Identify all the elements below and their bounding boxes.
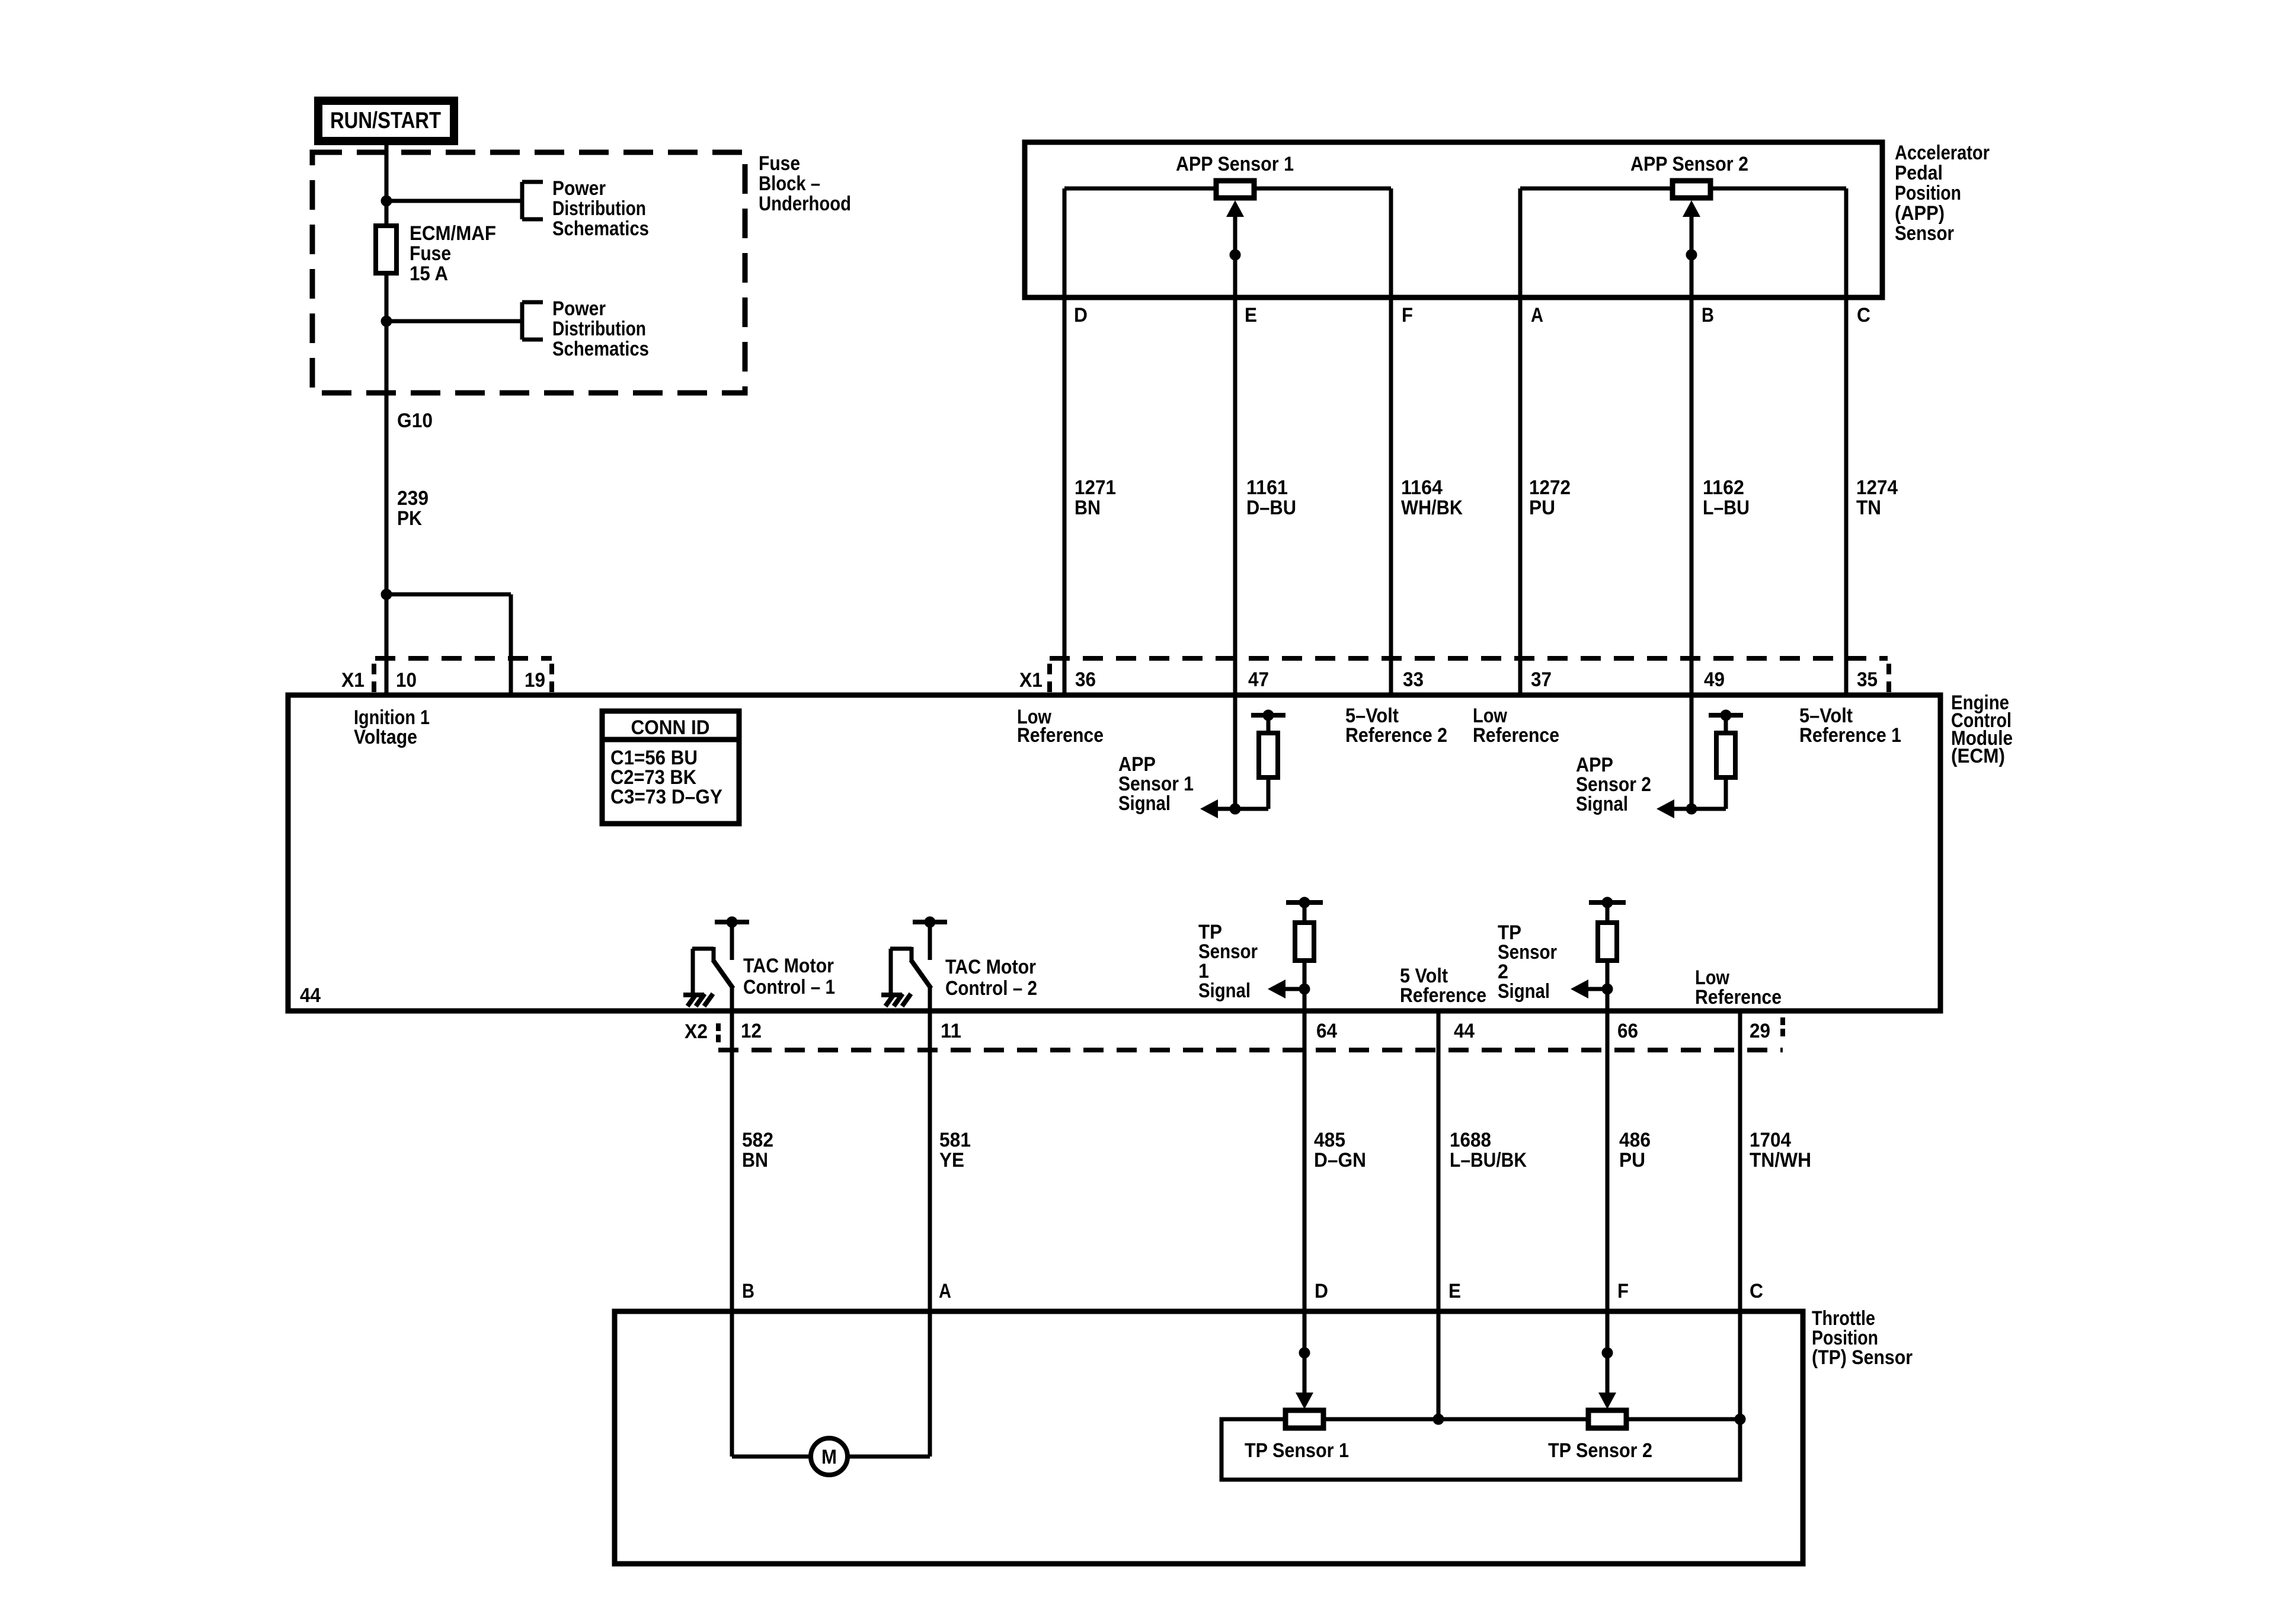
pin 37 xyxy=(1531,668,1552,691)
svg-text:Reference: Reference xyxy=(1017,724,1104,747)
svg-text:TP Sensor 2: TP Sensor 2 xyxy=(1548,1439,1652,1462)
svg-text:TN: TN xyxy=(1856,497,1881,519)
pin 19 xyxy=(525,669,545,692)
svg-text:Reference: Reference xyxy=(1695,986,1782,1009)
wire RUN/START to fuse xyxy=(385,141,389,226)
resistor TP sensor 2 signal xyxy=(1598,923,1617,961)
wire pin 66 (486 PU) xyxy=(1606,1011,1610,1394)
off-page connector power distribution 1 xyxy=(522,182,543,219)
wire C (1274 TN) xyxy=(1844,188,1849,695)
label X2 xyxy=(685,1020,708,1043)
wire branch 2 xyxy=(386,319,522,324)
svg-text:19: 19 xyxy=(525,669,545,692)
svg-text:Reference: Reference xyxy=(1473,724,1559,747)
svg-text:YE: YE xyxy=(939,1149,964,1172)
svg-text:L–BU/BK: L–BU/BK xyxy=(1450,1149,1527,1172)
label pin 44 (ECM bottom left) xyxy=(300,984,321,1007)
svg-text:APP Sensor 2: APP Sensor 2 xyxy=(1630,153,1748,175)
node C junction on track xyxy=(1735,1414,1745,1425)
svg-text:Distribution: Distribution xyxy=(552,318,646,340)
pin 12 xyxy=(741,1020,762,1042)
svg-text:Schematics: Schematics xyxy=(552,217,649,240)
arrow APP sensor 1 signal signal xyxy=(1200,799,1235,818)
svg-text:64: 64 xyxy=(1316,1020,1337,1042)
svg-text:Control – 2: Control – 2 xyxy=(945,977,1037,1000)
svg-text:X2: X2 xyxy=(685,1020,708,1043)
ground (TAC motor control 2) xyxy=(881,994,911,1006)
pin E (TP) xyxy=(1448,1280,1461,1302)
label 5 Volt Reference xyxy=(1400,965,1486,1007)
svg-text:Reference 2: Reference 2 xyxy=(1345,724,1447,747)
wire resistor TP sensor 2 signal down xyxy=(1606,961,1610,1011)
wire APP pot 2 track xyxy=(1520,187,1846,191)
label TP Sensor 2 xyxy=(1548,1439,1652,1462)
svg-text:Underhood: Underhood xyxy=(759,193,851,215)
svg-text:D–GN: D–GN xyxy=(1314,1149,1366,1172)
pin 36 xyxy=(1075,668,1096,691)
node APP sensor 2 signal signal junction xyxy=(1686,804,1697,814)
svg-text:10: 10 xyxy=(396,669,417,692)
connector X1 right (pins 36,47,33,37,49,35) xyxy=(1050,658,1889,693)
svg-text:1271: 1271 xyxy=(1075,476,1116,499)
pin B (TP) xyxy=(742,1280,754,1302)
svg-text:581: 581 xyxy=(939,1129,971,1151)
label wire 1704 TN/WH xyxy=(1750,1129,1811,1172)
label TAC Motor Control - 2 xyxy=(945,956,1037,1000)
svg-text:TN/WH: TN/WH xyxy=(1750,1149,1811,1172)
label wire 581 YE xyxy=(939,1129,971,1172)
label Power Distribution Schematics 1 xyxy=(552,177,649,240)
svg-text:M: M xyxy=(821,1446,837,1468)
svg-text:Voltage: Voltage xyxy=(354,726,417,748)
svg-text:(ECM): (ECM) xyxy=(1951,745,2005,767)
pin 11 xyxy=(941,1020,961,1042)
svg-text:Block –: Block – xyxy=(759,172,820,195)
arrow TP sensor 2 signal signal xyxy=(1571,980,1607,998)
svg-text:B: B xyxy=(1702,304,1714,327)
wire resistor APP sensor 2 signal to signal node xyxy=(1691,695,1726,809)
wire B (1162 L-BU) xyxy=(1690,213,1694,695)
svg-text:Schematics: Schematics xyxy=(552,338,649,360)
svg-text:BN: BN xyxy=(742,1149,768,1172)
wiper arrow APP sensor 1 xyxy=(1226,200,1244,260)
svg-text:1704: 1704 xyxy=(1750,1129,1791,1151)
node G10 xyxy=(397,409,433,432)
svg-text:D: D xyxy=(1074,304,1088,327)
label wire 1161 D-BU xyxy=(1246,476,1296,519)
node E junction on track xyxy=(1433,1414,1444,1425)
wire pin 44 (1688 L-BU/BK) xyxy=(1437,1011,1441,1419)
svg-text:Accelerator: Accelerator xyxy=(1895,142,1990,164)
svg-text:37: 37 xyxy=(1531,668,1552,691)
5V rail T-bar (TP sensor 1 signal) xyxy=(1286,897,1323,924)
label 5-Volt Reference 2 xyxy=(1345,705,1447,747)
pin 29 xyxy=(1750,1020,1770,1042)
pin 49 xyxy=(1704,668,1725,691)
label Power Distribution Schematics 2 xyxy=(552,297,649,360)
svg-text:F: F xyxy=(1617,1280,1629,1302)
resistor APP sensor 2 signal xyxy=(1716,733,1735,777)
pin D xyxy=(1074,304,1088,327)
svg-text:11: 11 xyxy=(941,1020,961,1042)
label Low Reference (pin 29) xyxy=(1695,966,1782,1009)
wire motor loop A side xyxy=(848,1311,930,1457)
wire branch 1 xyxy=(386,199,522,203)
svg-text:49: 49 xyxy=(1704,668,1725,691)
svg-text:Power: Power xyxy=(552,297,606,320)
label APP Sensor 2 xyxy=(1630,153,1748,175)
svg-text:TP Sensor 1: TP Sensor 1 xyxy=(1245,1439,1349,1462)
svg-text:Reference 1: Reference 1 xyxy=(1799,724,1901,747)
svg-text:Signal: Signal xyxy=(1498,980,1550,1003)
label wire 1274 TN xyxy=(1856,476,1898,519)
svg-text:1274: 1274 xyxy=(1856,476,1898,499)
label TAC Motor Control - 1 xyxy=(743,955,835,998)
svg-text:C3=73 D–GY: C3=73 D–GY xyxy=(610,786,722,808)
wire pin 11 (581 YE) xyxy=(928,988,932,1311)
TP sensors inner box xyxy=(1221,1419,1740,1480)
svg-text:Distribution: Distribution xyxy=(552,197,646,220)
svg-text:36: 36 xyxy=(1075,668,1096,691)
label APP Sensor 1 Signal xyxy=(1118,753,1194,815)
svg-text:WH/BK: WH/BK xyxy=(1401,497,1463,519)
off-page connector power distribution 2 xyxy=(522,302,543,340)
svg-text:Reference: Reference xyxy=(1400,984,1486,1007)
label TP Sensor 1 xyxy=(1245,1439,1349,1462)
label Fuse Block - Underhood xyxy=(759,152,851,215)
svg-text:TAC Motor: TAC Motor xyxy=(743,955,834,977)
svg-text:1688: 1688 xyxy=(1450,1129,1491,1151)
svg-text:Pedal: Pedal xyxy=(1895,162,1943,184)
label wire 486 PU xyxy=(1619,1129,1651,1172)
svg-text:Control – 1: Control – 1 xyxy=(743,976,835,998)
svg-text:Signal: Signal xyxy=(1198,980,1251,1002)
label Low Reference (pin 37) xyxy=(1473,705,1559,747)
pin A (TP) xyxy=(939,1280,951,1302)
svg-text:239: 239 xyxy=(397,487,428,510)
svg-text:47: 47 xyxy=(1248,668,1269,691)
label wire 582 BN xyxy=(742,1129,773,1172)
label APP Sensor 1 xyxy=(1176,153,1294,175)
label 5-Volt Reference 1 xyxy=(1799,705,1901,747)
svg-text:12: 12 xyxy=(741,1020,762,1042)
svg-text:APP Sensor 1: APP Sensor 1 xyxy=(1176,153,1294,175)
label X1 left xyxy=(341,669,364,692)
svg-text:BN: BN xyxy=(1075,497,1101,519)
potentiometer TP sensor 2 xyxy=(1588,1410,1626,1428)
svg-text:X1: X1 xyxy=(1019,669,1043,692)
label wire 239 PK xyxy=(397,487,428,530)
svg-text:1162: 1162 xyxy=(1703,476,1744,499)
svg-text:Position: Position xyxy=(1895,182,1961,204)
fuse ECM/MAF 15 A xyxy=(376,226,396,273)
svg-text:F: F xyxy=(1402,304,1413,327)
svg-text:RUN/START: RUN/START xyxy=(330,108,441,133)
connector X2 (pins 12,11,64,44,66,29) xyxy=(718,1017,1783,1050)
wire APP pot 1 track xyxy=(1064,187,1391,191)
svg-text:TAC Motor: TAC Motor xyxy=(945,956,1036,978)
label wire 1688 L-BU/BK xyxy=(1450,1129,1527,1172)
node branch to power distribution 2 xyxy=(381,316,392,327)
label ECM/MAF Fuse 15 A xyxy=(410,222,496,285)
label APP Sensor 2 Signal xyxy=(1576,754,1651,815)
svg-text:L–BU: L–BU xyxy=(1703,497,1750,519)
wire split to pin 10 xyxy=(385,594,389,695)
node TP sensor 2 signal signal junction xyxy=(1602,984,1613,994)
label Accelerator Pedal Position (APP) Sensor xyxy=(1895,142,1990,245)
wire A (1272 PU) xyxy=(1518,188,1523,695)
svg-text:CONN ID: CONN ID xyxy=(631,716,710,739)
switch RUN/START voltage source xyxy=(318,101,454,141)
label wire 485 D-GN xyxy=(1314,1129,1366,1172)
svg-text:35: 35 xyxy=(1857,668,1878,691)
svg-text:Signal: Signal xyxy=(1118,792,1171,815)
label wire 1272 PU xyxy=(1529,476,1571,519)
pin B xyxy=(1702,304,1714,327)
Accelerator Pedal Position (APP) Sensor box xyxy=(1025,142,1882,297)
CONN ID table xyxy=(602,711,739,824)
svg-text:ECM/MAF: ECM/MAF xyxy=(410,222,496,245)
svg-text:66: 66 xyxy=(1617,1020,1638,1042)
pin 33 xyxy=(1403,668,1424,691)
potentiometer TP sensor 1 xyxy=(1285,1410,1323,1428)
svg-text:D–BU: D–BU xyxy=(1246,497,1296,519)
label Throttle Position (TP) Sensor xyxy=(1812,1307,1913,1369)
svg-text:Signal: Signal xyxy=(1576,793,1628,815)
svg-text:A: A xyxy=(939,1280,951,1302)
svg-text:PU: PU xyxy=(1619,1149,1645,1172)
svg-text:44: 44 xyxy=(300,984,321,1007)
rail T-bar (TAC motor control 2) xyxy=(913,917,947,960)
arrow TP sensor 1 signal signal xyxy=(1268,980,1304,998)
svg-text:Fuse: Fuse xyxy=(759,152,800,175)
Throttle Position (TP) Sensor box xyxy=(615,1311,1803,1564)
wire resistor TP sensor 1 signal down xyxy=(1303,961,1307,1011)
svg-text:485: 485 xyxy=(1314,1129,1345,1151)
label wire 1162 L-BU xyxy=(1703,476,1750,519)
label Ignition 1 Voltage xyxy=(354,706,430,748)
svg-text:E: E xyxy=(1245,304,1257,327)
node ignition feed split xyxy=(381,589,392,600)
wire pin 29 (1704 TN/WH) xyxy=(1738,1011,1742,1419)
svg-text:582: 582 xyxy=(742,1129,773,1151)
svg-text:PU: PU xyxy=(1529,497,1555,519)
wiper arrow APP sensor 2 xyxy=(1683,200,1700,260)
wire split to pin 19 xyxy=(386,594,511,695)
pin F (TP) xyxy=(1617,1280,1629,1302)
label Low Reference (pin 36) xyxy=(1017,706,1104,747)
pin C xyxy=(1857,304,1870,327)
svg-text:Sensor: Sensor xyxy=(1895,222,1954,245)
pin A xyxy=(1531,304,1543,327)
motor M (TAC motor) xyxy=(811,1438,848,1475)
svg-text:C: C xyxy=(1750,1280,1763,1302)
pin 44 xyxy=(1454,1020,1475,1042)
node APP sensor 1 signal signal junction xyxy=(1230,804,1240,814)
svg-text:C: C xyxy=(1857,304,1870,327)
connector X1 left (pins 10, 19) xyxy=(374,658,552,693)
wire fuse to branch 2 xyxy=(385,273,389,594)
rail T-bar (TAC motor control 1) xyxy=(715,917,749,960)
ground (TAC motor control 1) xyxy=(683,994,713,1006)
svg-text:(TP) Sensor: (TP) Sensor xyxy=(1812,1346,1913,1369)
svg-text:PK: PK xyxy=(397,507,422,530)
wiper arrow TP sensor 2 xyxy=(1598,1347,1616,1409)
fuse block dashed box xyxy=(312,152,745,393)
svg-text:D: D xyxy=(1315,1280,1328,1302)
resistor APP sensor 1 signal xyxy=(1259,733,1278,777)
label wire 1271 BN xyxy=(1075,476,1116,519)
5V rail T-bar (APP sensor 1 signal) xyxy=(1251,710,1285,735)
label X1 right xyxy=(1019,669,1043,692)
wiper arrow TP sensor 1 xyxy=(1296,1347,1313,1409)
pin 35 xyxy=(1857,668,1878,691)
transistor driver TAC motor control 2 xyxy=(890,947,931,994)
label TP Sensor 2 Signal xyxy=(1498,921,1557,1003)
resistor TP sensor 1 signal xyxy=(1295,923,1314,961)
5V rail T-bar (APP sensor 2 signal) xyxy=(1709,710,1743,735)
potentiometer APP sensor 1 xyxy=(1216,181,1254,198)
pin C (TP) xyxy=(1750,1280,1763,1302)
svg-text:1164: 1164 xyxy=(1401,476,1443,499)
pin 10 xyxy=(396,669,417,692)
svg-text:Fuse: Fuse xyxy=(410,242,451,265)
svg-text:486: 486 xyxy=(1619,1129,1651,1151)
ECM box xyxy=(288,695,1940,1011)
svg-text:E: E xyxy=(1448,1280,1461,1302)
svg-text:Power: Power xyxy=(552,177,606,200)
wire resistor APP sensor 1 signal to signal node xyxy=(1235,695,1268,809)
svg-text:G10: G10 xyxy=(397,409,433,432)
pin 47 xyxy=(1248,668,1269,691)
svg-text:29: 29 xyxy=(1750,1020,1770,1042)
label Engine Control Module (ECM) xyxy=(1951,692,2013,767)
wire pin 64 (485 D-GN) xyxy=(1303,1011,1307,1394)
pin 66 xyxy=(1617,1020,1638,1042)
svg-text:B: B xyxy=(742,1280,754,1302)
svg-text:15 A: 15 A xyxy=(410,263,448,285)
svg-text:44: 44 xyxy=(1454,1020,1475,1042)
node branch to power distribution 1 xyxy=(381,196,392,206)
wire D (1271 BN) xyxy=(1063,188,1067,695)
svg-text:1161: 1161 xyxy=(1246,476,1288,499)
pin 64 xyxy=(1316,1020,1337,1042)
wire F (1164 WH/BK) xyxy=(1389,188,1393,695)
wire motor loop B side xyxy=(732,1311,811,1457)
svg-text:(APP): (APP) xyxy=(1895,202,1945,225)
pin E xyxy=(1245,304,1257,327)
node TP sensor 1 signal signal junction xyxy=(1299,984,1310,994)
pin D (TP) xyxy=(1315,1280,1328,1302)
transistor driver TAC motor control 1 xyxy=(692,947,733,994)
svg-text:33: 33 xyxy=(1403,668,1424,691)
potentiometer APP sensor 2 xyxy=(1673,181,1710,198)
5V rail T-bar (TP sensor 2 signal) xyxy=(1589,897,1626,924)
wire E (1161 D-BU) xyxy=(1233,213,1237,695)
svg-text:1272: 1272 xyxy=(1529,476,1571,499)
svg-text:X1: X1 xyxy=(341,669,364,692)
label TP Sensor 1 Signal xyxy=(1198,921,1258,1002)
pin F xyxy=(1402,304,1413,327)
label wire 1164 WH/BK xyxy=(1401,476,1463,519)
arrow APP sensor 2 signal signal xyxy=(1657,799,1691,818)
wire pin 12 (582 BN) xyxy=(730,987,734,1311)
svg-text:A: A xyxy=(1531,304,1543,327)
